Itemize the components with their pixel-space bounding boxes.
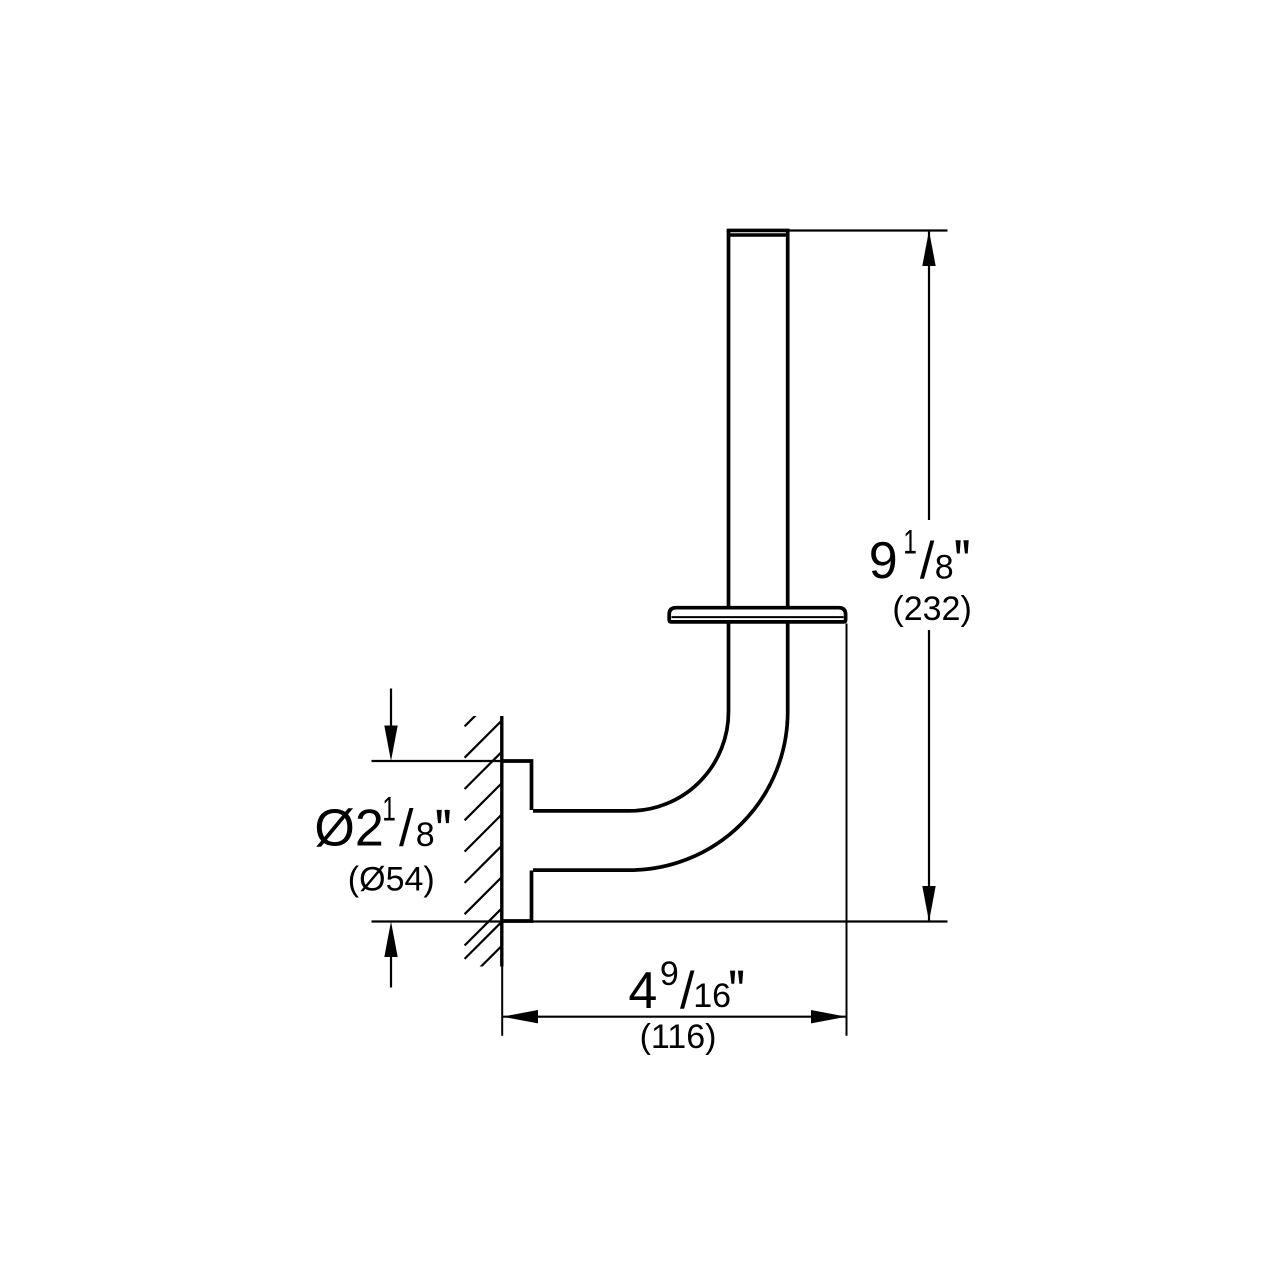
arrow up (54 dim bottom) (384, 922, 397, 958)
disc flange outline (669, 608, 845, 622)
svg-text:16: 16 (693, 977, 731, 1015)
extension line bottom (232 dim / plate bottom) (372, 920, 948, 922)
arrow right (116 dim) (811, 1010, 847, 1023)
arrow up (232 top) (922, 231, 935, 267)
svg-text:1: 1 (903, 524, 917, 562)
arrow down (54 dim top) (384, 726, 397, 762)
tube outer contour (right/bottom) (533, 231, 788, 871)
svg-text:/: / (399, 800, 414, 858)
disc flange inner edge line (672, 616, 844, 618)
svg-text:4: 4 (628, 962, 657, 1020)
arrow left (116 dim) (503, 1010, 539, 1023)
svg-text:(116): (116) (640, 1018, 717, 1056)
svg-text:1: 1 (382, 790, 396, 828)
tube top cap edge (727, 229, 790, 233)
arrow down (232 bottom) (922, 886, 935, 922)
extension line right vertical (116 dim) (846, 624, 848, 1036)
wall extension line below (left end of 116 dim) (501, 967, 503, 1036)
dimension line 116 (503, 1016, 847, 1018)
label 9 1/8 inch (869, 524, 969, 590)
label diameter 2 1/8 inch (314, 790, 449, 857)
tube top cap chamfer line (729, 233, 788, 237)
svg-text:Ø2: Ø2 (314, 800, 383, 858)
wall hatching (465, 689, 502, 983)
extension line top (232 dim) (786, 229, 948, 231)
dimension line 232 lower shaft (928, 630, 930, 921)
arrow shaft lower (54 dim) (390, 940, 392, 988)
wall plate (escutcheon) (502, 761, 532, 921)
wall line (500, 716, 503, 967)
label 4 9/16 inch (628, 955, 743, 1020)
tube inner contour (left/top) (533, 231, 729, 811)
arrow shaft upper (54 dim) (390, 689, 392, 746)
svg-text:/: / (920, 532, 935, 590)
svg-text:8: 8 (935, 549, 954, 587)
svg-text:8: 8 (416, 816, 435, 854)
svg-text:(Ø54): (Ø54) (348, 861, 435, 899)
dimension line 232 upper shaft (928, 231, 930, 520)
svg-text:9: 9 (869, 532, 898, 590)
extension line plate top (54 dim) (372, 760, 502, 762)
svg-text:(232): (232) (892, 590, 971, 628)
svg-text:9: 9 (660, 955, 679, 993)
